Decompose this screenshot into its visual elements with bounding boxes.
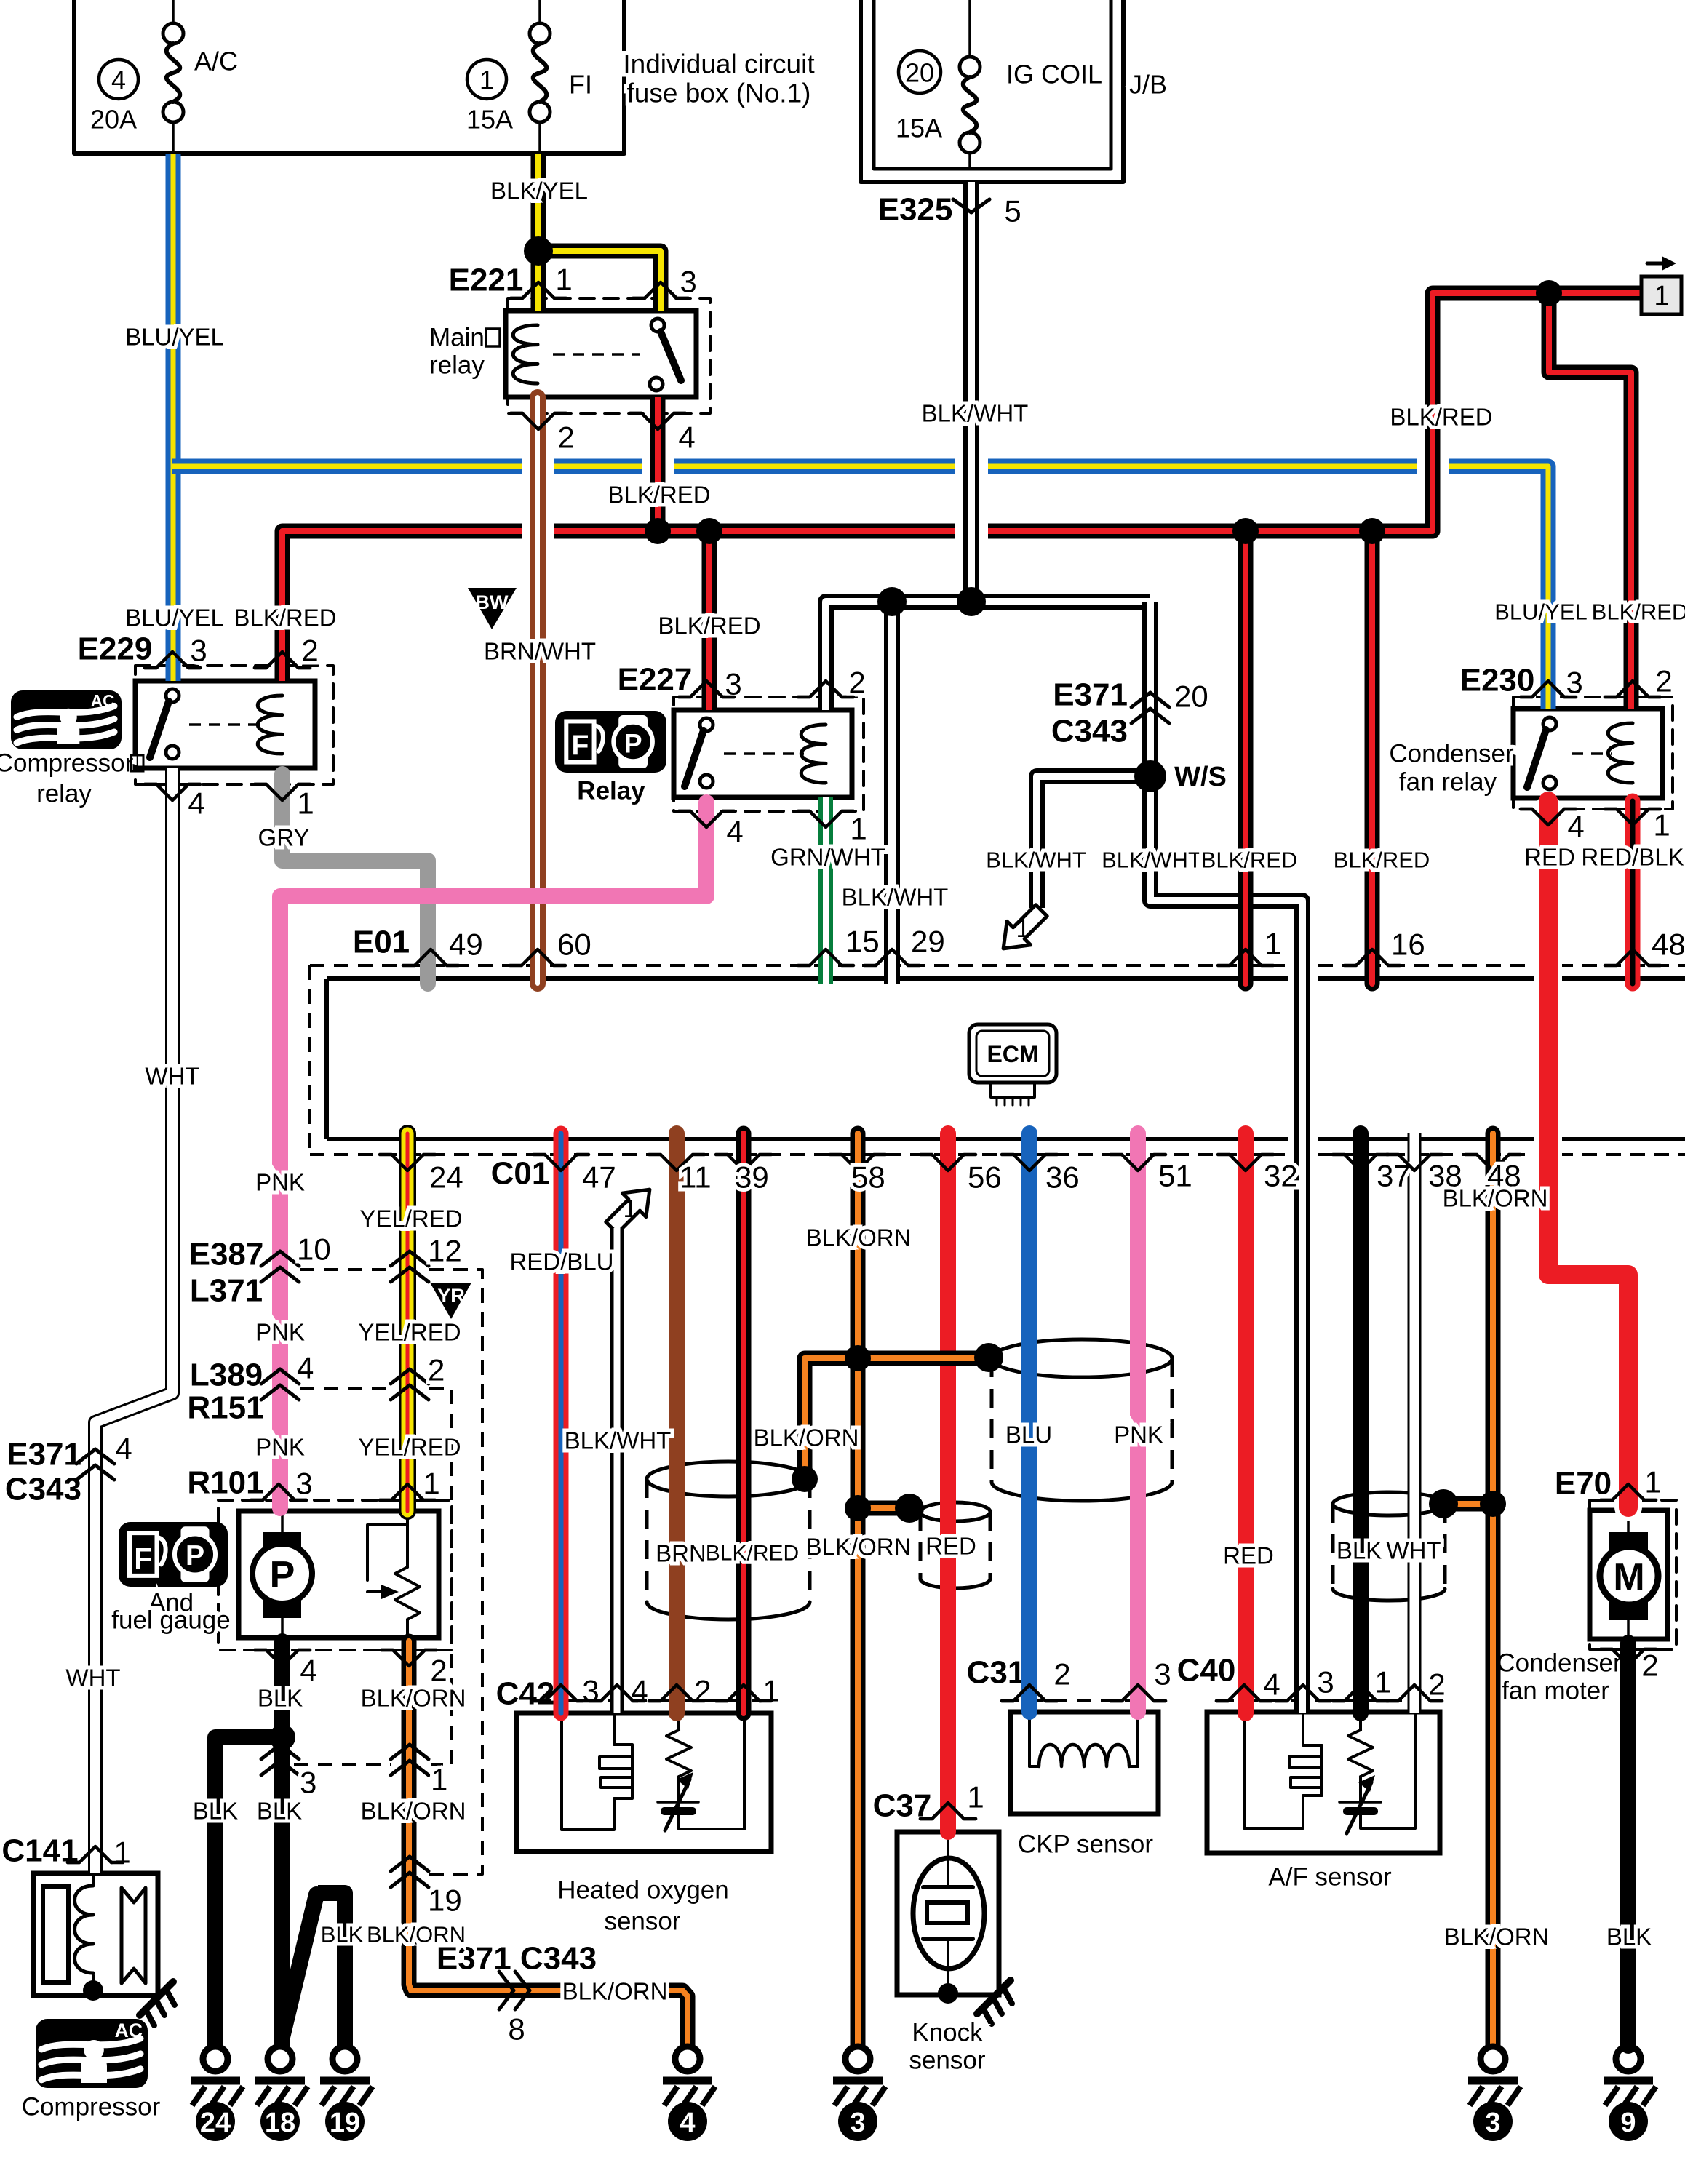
wire RED C01 32 to C40 pin 4 [1238,1133,1254,1713]
junction dot (knock shield) [895,1494,924,1523]
circled 1 [467,60,506,99]
FP icon (relay) [555,711,666,773]
svg-text:4: 4 [726,815,743,849]
svg-text:BLK/ORN: BLK/ORN [562,1978,668,2005]
svg-text:10: 10 [297,1232,331,1267]
fuse F20 IG COIL [960,0,980,169]
pin marks overlay C37 [920,1803,976,1819]
pin 2 (C40) [1387,1667,1446,1702]
label E227 [618,662,693,698]
label WHT (lower) [65,1665,120,1691]
svg-text:2: 2 [301,634,318,668]
pin 1 (R101) [380,1467,440,1501]
triangle YR [430,1283,471,1319]
svg-text:3: 3 [300,1766,316,1800]
connector E371/C343 pin 4 (WHT) [5,1432,132,1507]
label Relay [577,777,645,805]
connector E70 dashed box [1590,1500,1676,1649]
svg-text:Heated oxygen: Heated oxygen [557,1876,728,1905]
svg-text:C343: C343 [1051,714,1128,749]
AC icon (compressor relay) [11,690,122,749]
label J/B [1129,70,1167,100]
svg-text:E229: E229 [78,631,153,667]
label Individual circuit fuse box (No.1) [623,49,815,108]
svg-text:Condenser: Condenser [1389,740,1514,768]
svg-text:BLK: BLK [257,1798,302,1825]
pin 1 (E70) [1601,1465,1662,1501]
svg-text:A/F sensor: A/F sensor [1268,1863,1392,1892]
label BRN/WHT [484,638,596,665]
svg-text:PNK: PNK [255,1319,305,1346]
svg-text:CKP sensor: CKP sensor [1018,1830,1153,1859]
shield cylinder (CKP BLU/PNK) [992,1339,1172,1501]
svg-text:51: 51 [1158,1159,1192,1193]
circled 4 [99,60,138,99]
label E70 [1555,1466,1612,1502]
label C01 [491,1156,550,1192]
relay E227 contact dashed [724,752,804,755]
svg-text:2: 2 [1655,664,1672,698]
wire BLK/YEL branch to E221 pin 3 [538,251,661,311]
svg-text:1: 1 [431,1763,447,1797]
svg-text:E387: E387 [189,1237,264,1272]
svg-text:BLK/ORN: BLK/ORN [1444,1924,1550,1950]
pin 3 (C31) [1110,1657,1171,1702]
connector box 1 (top right) [1641,256,1681,314]
svg-text:F: F [134,1542,152,1575]
label Compressor [22,2093,161,2121]
fuel gauge variable resistor [367,1511,420,1638]
svg-text:BLK/ORN: BLK/ORN [1443,1185,1548,1212]
label BLK (pump) [258,1685,303,1712]
svg-text:Relay: Relay [577,777,645,805]
label BLK/WHT (IG) [922,400,1029,427]
wire BLK/ORN R101 pin2 to E371 C343 [409,1641,688,2046]
connector L389/R151 [187,1351,452,1766]
svg-text:R101: R101 [187,1465,263,1501]
svg-text:AC: AC [115,2020,143,2041]
pin 2 (R101) [381,1650,447,1688]
wire BLK branch to ground 24 [215,1737,282,2046]
label BLK/ORN (knock) [806,1534,912,1561]
svg-text:3: 3 [1566,666,1582,700]
junction dot (CKP shield) [974,1343,1003,1372]
junction dot (bus - pin16 drop) [1359,518,1385,544]
pin 11 (C01) [649,1155,712,1195]
wire BLK/WHT E371 C343 to A/F pin 3 [1150,602,1302,1713]
svg-text:24: 24 [429,1160,463,1195]
ground 9 (fan) [1604,2046,1656,2141]
pin marks overlay C141 [68,1846,123,1862]
svg-text:F: F [571,730,589,762]
label BLK/ORN (48) [1443,1185,1548,1212]
pin 4 (C42) [589,1674,648,1708]
label BLK (18) [257,1798,302,1825]
label BLK/WHT (arrow) [986,848,1086,873]
wire BLK/RED bus to E01 pin 16 [1365,531,1380,984]
pin mark overlay E325 [953,199,989,212]
pin 1 (C40) [1333,1665,1392,1702]
label BLK (24) [193,1798,238,1825]
svg-text:R151: R151 [187,1390,263,1426]
svg-text:BLK/ORN: BLK/ORN [361,1798,466,1825]
svg-text:fan moter: fan moter [1502,1677,1609,1705]
wire RED/BLK E230 pin1 to E01 pin48 [1625,801,1641,984]
pin 1 (C37) [920,1780,984,1820]
pin 51 (C01) [1110,1155,1192,1193]
pin 4 (E221) [630,413,696,455]
pin 36 (C01) [1002,1155,1080,1195]
relay E229 box [135,681,315,768]
svg-text:WHT: WHT [1386,1537,1441,1564]
svg-text:E371: E371 [1053,677,1128,713]
wire RED E230 pin4 to E70 [1548,801,1628,1507]
AC icon (compressor) [36,2019,148,2088]
wire BLK/ORN C01 58 to ground 3 [851,1133,866,2046]
pin marks overlay E229 [145,652,310,800]
svg-text:BLK: BLK [1606,1924,1652,1950]
wire BRN C01 11 to C42 pin 2 [669,1133,685,1713]
pin 3 (E229) [145,634,207,669]
svg-text:BLK/RED: BLK/RED [658,613,760,639]
svg-text:1: 1 [1374,1665,1391,1699]
svg-text:4: 4 [188,786,204,821]
label WHT (shield) [1386,1537,1441,1564]
label BLK/WHT (29) [842,884,949,911]
ECM box [327,979,1685,1139]
label BLK (shield) [1337,1537,1382,1564]
wire BLK/YEL fuse 1 to E221 pin 1 [531,154,546,311]
wire BLK/RED E221 pin4 to bus [650,397,666,531]
A/F sensor box [1207,1712,1440,1853]
svg-text:4: 4 [297,1351,314,1385]
wire BLK/WHT horizontal to E227 pin2 and E371 [826,602,1150,710]
svg-text:BLK/ORN: BLK/ORN [806,1534,912,1561]
svg-text:BLK/ORN: BLK/ORN [367,1922,466,1948]
svg-text:GRY: GRY [258,824,310,851]
svg-text:C343: C343 [5,1472,81,1507]
wire BLU/YEL from fuse 4 to E229 pin 3 [166,154,181,681]
svg-text:BW: BW [476,591,509,613]
svg-text:RED: RED [1524,844,1575,871]
svg-text:19: 19 [330,2108,360,2138]
pin 49 (E01) [403,928,483,966]
A/F heater resistor [1339,1712,1415,1833]
wire BLK R101 pin4 to ground 18 [274,1641,290,2046]
label BLK/RED (shield) [706,1542,799,1566]
label Condenser fan moter [1497,1649,1622,1705]
C141 chassis ground [140,1982,175,2025]
svg-text:RED: RED [925,1533,976,1560]
svg-text:C40: C40 [1177,1653,1236,1689]
svg-text:BRN: BRN [656,1540,706,1567]
svg-text:YEL/RED: YEL/RED [358,1319,461,1346]
svg-text:BRN/WHT: BRN/WHT [484,638,596,665]
label FI [569,70,592,100]
svg-text:2: 2 [428,1353,445,1387]
pin marks overlay C42 [533,1685,771,1701]
svg-text:PNK: PNK [255,1434,305,1461]
relay E230 box [1513,709,1662,798]
C141 coil [75,1873,94,1990]
pin 60 (E01) [510,928,591,966]
C141 box [33,1873,158,1996]
label PNK 2 [255,1319,305,1346]
label E01 [353,925,410,960]
FP icon (fuel pump) [119,1522,228,1587]
svg-text:3: 3 [295,1467,312,1501]
knock sensor box [897,1832,999,1995]
circled 20 [899,51,941,93]
ground 24 [191,2046,243,2141]
label YEL/RED 1 [359,1205,462,1232]
svg-text:YEL/RED: YEL/RED [359,1205,462,1232]
svg-text:BLK/RED: BLK/RED [706,1542,799,1566]
label 20A [90,105,137,135]
arrow connector 1 (C01 47) [599,1178,661,1240]
svg-text:BLK/RED: BLK/RED [1334,848,1430,873]
J/B box outline [861,0,1123,182]
fan motor box [1590,1510,1668,1639]
svg-text:relay: relay [36,780,92,808]
svg-text:E221: E221 [449,263,524,298]
svg-text:WHT: WHT [145,1063,199,1090]
wire RED/BLU C01 47 to C42 pin 3 [554,1133,569,1713]
relay E229 contact dashed [189,723,262,726]
wire BLK/RED C01 39 to C42 pin 1 [736,1133,752,1713]
wire BLK/RED bus [282,293,1641,681]
relay E229 dashed connector box [135,666,333,784]
svg-text:1: 1 [479,65,494,95]
svg-text:BLK/RED: BLK/RED [1390,404,1492,431]
pin 4 (C40) [1216,1667,1280,1702]
label RED/BLK [1581,844,1684,871]
C141 dot [83,1980,103,2001]
label Compressor relay [0,749,143,808]
pin 4 (E230) [1521,809,1585,844]
shield cylinder (heated O2) [647,1462,810,1619]
svg-text:ECM: ECM [987,1041,1038,1067]
pin 1 (E221) [511,263,573,299]
svg-text:3: 3 [1317,1665,1334,1699]
svg-text:4: 4 [300,1654,316,1688]
svg-text:1: 1 [624,1195,637,1223]
label BLK/RED (E227) [658,613,760,639]
svg-text:1: 1 [967,1780,984,1814]
pin 2 (E70) [1601,1649,1659,1683]
svg-text:2: 2 [694,1674,711,1708]
wire BLK/RED bus to E01 pin 1 [1238,531,1254,984]
wire YEL/RED C01 24 to R101 pin 1 [399,1133,416,1511]
pin 24 (C01) [380,1155,463,1195]
svg-text:3: 3 [190,634,207,668]
pin 3 (C40) [1275,1665,1334,1702]
svg-text:L371: L371 [190,1273,263,1309]
connector E01 dashed line [310,965,1685,1155]
junction dot (bus - pin1 drop) [1232,518,1259,544]
wire BLK/ORN branch to O2 shield [805,1358,858,1479]
svg-text:BLK: BLK [1337,1537,1382,1564]
pin marks overlay E227 [679,681,853,827]
label C37 [873,1788,932,1824]
junction dot W/S [1134,760,1166,792]
ground 3 (knock) [833,2046,885,2141]
wire BLK/RED bus to E227 pin3 [702,531,717,710]
relay E230 coil [1608,723,1633,783]
fuse F4 A/C [163,0,183,154]
pin 3 (E227) [679,667,742,701]
svg-text:BLK/WHT: BLK/WHT [1102,848,1202,873]
svg-text:49: 49 [449,928,483,962]
pin 1 (C141) [68,1836,131,1870]
label BLK/ORN (58) [806,1224,912,1251]
label 15A [466,105,513,135]
wire BLU/YEL bus [172,466,1548,709]
svg-text:1: 1 [1264,927,1281,961]
C42 dashed pin line [536,1699,768,1702]
svg-text:J/B: J/B [1129,70,1167,100]
svg-text:M: M [1613,1556,1644,1598]
wire BLK/WHT to E01 pin 29 [884,602,900,984]
label E230 [1460,663,1535,698]
svg-text:relay: relay [429,351,485,380]
connector C01 dashed line [310,1153,1685,1156]
shield cylinder (A/F BLK WHT) [1333,1492,1445,1601]
label BLK/YEL [490,178,588,204]
svg-text:C42: C42 [496,1676,555,1712]
knock sensor ground dot [938,1983,958,2004]
svg-text:AC: AC [91,691,115,710]
svg-text:1: 1 [1016,915,1030,943]
svg-text:C01: C01 [491,1156,550,1192]
pin 48 (E01) [1605,928,1685,966]
label C40 [1177,1653,1236,1689]
relay E230 switch [1527,717,1556,789]
svg-text:29: 29 [911,925,945,959]
wire GRN/WHT E227 pin1 to E01 pin 15 [818,797,833,984]
svg-text:39: 39 [735,1160,769,1195]
svg-text:YR: YR [437,1285,465,1307]
fuel pump motor P [252,1511,312,1638]
svg-text:BLK/WHT: BLK/WHT [842,884,949,911]
connector E371/C343 pin 20 [1051,677,1208,749]
svg-text:fuse box (No.1): fuse box (No.1) [627,79,811,108]
svg-text:Main: Main [429,324,485,352]
ground 19 [320,2046,373,2141]
svg-text:56: 56 [968,1160,1002,1195]
svg-text:1: 1 [1654,281,1669,311]
knock sensor chassis ground [977,1980,1012,2024]
label PNK (shield) [1114,1422,1163,1448]
label E221 [449,263,524,298]
svg-text:RED/BLU: RED/BLU [509,1248,613,1275]
junction dot (48 link) [1480,1491,1506,1517]
svg-text:8: 8 [508,2012,525,2046]
C31 dashed pin line [1005,1699,1136,1702]
pin 3 (C42) [533,1674,599,1708]
pin 3 (E230) [1521,666,1583,700]
svg-text:BLK/RED: BLK/RED [234,605,336,631]
svg-text:3: 3 [850,2108,865,2138]
svg-text:4: 4 [115,1432,132,1466]
C141 left contact [43,1886,68,1982]
pin marks overlay E230 [1521,681,1660,825]
pin 2 (C42) [649,1674,712,1708]
wire BLK/ORN branch to CKP shield [858,1351,989,1366]
svg-text:YEL/RED: YEL/RED [358,1434,461,1461]
svg-text:RED: RED [1223,1542,1274,1569]
label BLU (shield) [1005,1422,1052,1448]
label C31 [967,1655,1026,1691]
wire BLK E70 pin2 to ground 9 [1620,1643,1636,2046]
svg-text:3: 3 [1154,1657,1171,1691]
junction dot (pump ground) [269,1724,295,1750]
svg-text:Compressor: Compressor [22,2093,161,2121]
svg-text:E70: E70 [1555,1466,1612,1502]
label IG COIL [1006,60,1102,89]
svg-text:24: 24 [200,2108,231,2138]
wire BLK/ORN shield link (A/F) [1443,1496,1493,1512]
label RED (shield) [925,1533,976,1560]
wire BRN/WHT E221 pin2 to E01 pin 60 [530,397,546,984]
svg-text:4: 4 [1567,810,1584,844]
label PNK 1 [255,1169,305,1196]
svg-text:18: 18 [265,2108,295,2138]
label GRN/WHT [770,844,885,871]
pin 2 (E221) [511,413,575,455]
pin 37 (C01) [1333,1155,1411,1193]
svg-text:BLK/ORN: BLK/ORN [361,1685,466,1712]
svg-text:60: 60 [557,928,591,962]
label C141 [1,1833,78,1869]
svg-text:Condenser: Condenser [1497,1649,1622,1678]
label RED (32) [1223,1542,1274,1569]
wire WHT C01 38 to C40 pin 2 [1408,1133,1422,1713]
svg-text:GRN/WHT: GRN/WHT [770,844,885,871]
label GRY [258,824,310,851]
pin 48 (C01) [1465,1155,1521,1193]
svg-text:sensor: sensor [909,2046,985,2075]
svg-text:2: 2 [430,1654,447,1688]
ground 3 (A/F) [1468,2046,1521,2141]
label Main relay [429,324,500,380]
label W/S [1174,762,1227,792]
connector R101 dashed box [218,1500,452,1650]
svg-text:15A: 15A [896,113,942,143]
pin 16 (E01) [1345,928,1425,966]
pin 2 (E230) [1605,664,1673,698]
svg-text:Individual circuit: Individual circuit [623,49,815,79]
svg-text:BLK: BLK [321,1922,364,1948]
ground 4 [663,2046,715,2141]
label BLU/YEL (E230) [1494,599,1588,625]
fuse F1 FI [530,0,550,154]
pin marks overlay C31 [1002,1685,1166,1701]
wire GRY E229 pin1 to E01 pin 49 [282,774,428,984]
svg-text:32: 32 [1264,1159,1298,1193]
wire BLK/WHT from IG coil [963,182,979,602]
label BLK (gnd9) [1606,1924,1652,1950]
pin 2 (E227) [798,666,866,700]
pin 3 (E221) [633,265,697,299]
svg-text:4: 4 [1263,1667,1280,1702]
fan motor M [1600,1510,1658,1639]
pin 2 (C31) [1002,1657,1071,1702]
junction dot (bus - E227 pin3) [696,518,722,544]
svg-text:BLK: BLK [193,1798,238,1825]
relay E230 dashed connector box [1513,697,1673,809]
svg-text:11: 11 [680,1160,712,1195]
